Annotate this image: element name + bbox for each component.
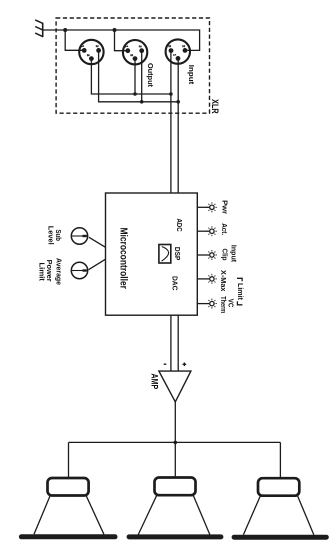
svg-text:Input: Input bbox=[229, 245, 236, 263]
node: junction bus B / J3 signal line bbox=[176, 100, 180, 104]
wire: Average Power Limit pot to U1 bbox=[89, 259, 106, 270]
wire: J1 pin3 to bus A bbox=[91, 59, 170, 94]
speaker SP1 bbox=[21, 478, 115, 537]
svg-text:Microcontroller: Microcontroller bbox=[118, 227, 129, 289]
connector J2 (XLR) "Output" bbox=[123, 40, 147, 64]
label: plus input bbox=[183, 363, 187, 367]
svg-text:1: 1 bbox=[124, 45, 128, 47]
svg-text:2: 2 bbox=[95, 45, 99, 47]
wire: drop to speaker SP3 bbox=[279, 442, 281, 478]
svg-text:Average: Average bbox=[54, 258, 61, 285]
svg-text:3: 3 bbox=[168, 45, 172, 47]
wire: U1 to AMP (-) bbox=[170, 315, 172, 371]
wire: drop to J2 pin1 bbox=[115, 30, 126, 51]
label: Average Power Limit bbox=[38, 258, 62, 285]
svg-text:Output: Output bbox=[146, 63, 155, 87]
svg-text:DSP: DSP bbox=[173, 247, 182, 260]
svg-text:DAC: DAC bbox=[170, 276, 179, 291]
wire: ground to XLR shield bus (top horizontal) bbox=[43, 30, 200, 50]
speaker SP3 bbox=[234, 478, 326, 537]
DSP filter block bbox=[159, 245, 171, 264]
potentiometer: Sub Level bbox=[71, 228, 87, 244]
wire: J2 pin2 to bus B bbox=[141, 51, 143, 102]
wire: Sub Level pot to U1 bbox=[89, 237, 106, 247]
LED D5 VC Therm bbox=[197, 299, 217, 309]
svg-text:Sub: Sub bbox=[54, 230, 61, 241]
svg-text:Act.: Act. bbox=[220, 223, 227, 235]
svg-text:X-Max: X-Max bbox=[219, 270, 226, 292]
LED D2 Act. bbox=[197, 226, 217, 236]
svg-text:Therm: Therm bbox=[219, 296, 226, 313]
node: junction top wire / J1 drop bbox=[63, 28, 67, 32]
svg-text:ADC: ADC bbox=[175, 219, 184, 232]
ground bbox=[35, 20, 43, 37]
connector J3 (XLR) "Input" bbox=[166, 39, 190, 63]
wire: drop to J1 pin1 bbox=[65, 30, 82, 50]
wire: J1 pin2 to bus B bbox=[99, 50, 179, 101]
LED D1 Pwr bbox=[197, 202, 217, 212]
svg-text:2: 2 bbox=[182, 45, 186, 47]
svg-text:1: 1 bbox=[81, 45, 85, 47]
XLR enclosure (dashed) bbox=[56, 18, 209, 113]
svg-text:XLR: XLR bbox=[210, 99, 220, 114]
wire: J3 pin to microcontroller (signal -) bbox=[170, 51, 172, 193]
label: Limit bracket (spans X-Max and VC Therm) bbox=[236, 278, 243, 305]
svg-text:Pwr: Pwr bbox=[220, 200, 227, 214]
node: junction bus A / J2 bbox=[133, 92, 137, 96]
wire: speaker bus bbox=[69, 441, 281, 443]
microcontroller U1 bbox=[106, 193, 198, 315]
label: minus input bbox=[164, 363, 167, 365]
speaker SP2 bbox=[129, 478, 221, 537]
node: junction bus A / J3 signal line bbox=[169, 92, 173, 96]
svg-text:3: 3 bbox=[86, 54, 90, 56]
node: junction bus B / J2 bbox=[140, 100, 144, 104]
label: Sub Level bbox=[47, 226, 62, 245]
label: VC Therm bbox=[219, 296, 234, 313]
svg-text:1: 1 bbox=[173, 54, 177, 56]
connector J1 (XLR) bbox=[79, 40, 103, 64]
LED D4 X-Max bbox=[197, 274, 217, 284]
svg-text:2: 2 bbox=[138, 45, 142, 47]
svg-text:Input: Input bbox=[187, 65, 196, 85]
wire: drop to speaker SP1 bbox=[68, 442, 70, 478]
svg-text:3: 3 bbox=[130, 54, 134, 56]
wire: J3 pin to microcontroller (signal +) bbox=[177, 58, 179, 193]
LED D3 Input Clip bbox=[197, 250, 217, 260]
op-amp AMP (power amplifier) bbox=[159, 371, 191, 402]
svg-text:Power: Power bbox=[45, 260, 52, 282]
svg-text:Limit: Limit bbox=[38, 262, 45, 281]
svg-text:Clip: Clip bbox=[221, 249, 228, 261]
svg-text:Level: Level bbox=[47, 226, 54, 245]
label: Input Clip bbox=[221, 245, 237, 263]
svg-text:AMP: AMP bbox=[149, 374, 159, 390]
node: junction bus / amp output bbox=[174, 441, 178, 445]
svg-text:Limit: Limit bbox=[236, 283, 243, 301]
wire: J2 pin3 to bus A bbox=[134, 59, 136, 94]
svg-text:VC: VC bbox=[227, 299, 234, 308]
wire: U1 to AMP (+) bbox=[177, 315, 179, 371]
node: junction top wire / J2 drop bbox=[113, 28, 117, 32]
potentiometer: Average Power Limit bbox=[71, 262, 87, 278]
wire: AMP output to speaker bus bbox=[174, 402, 176, 478]
